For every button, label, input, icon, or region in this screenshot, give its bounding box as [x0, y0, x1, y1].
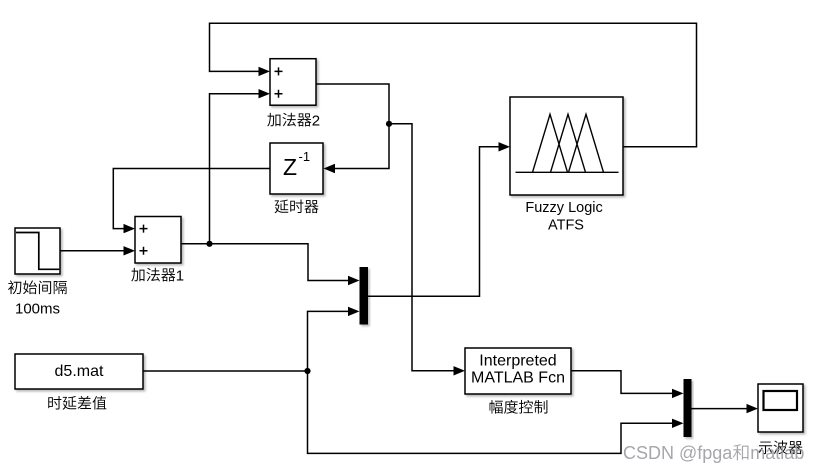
wire: branch d5.mat up to Mux1 input 2: [308, 311, 349, 371]
label 初始间隔: [8, 280, 67, 294]
wire: step source output to 加法器1 input 2: [60, 250, 125, 252]
step source block 初始间隔100ms: [15, 228, 60, 274]
svg-text:2: 2: [312, 112, 320, 129]
wire: branch 加法器1 output up to 加法器2 input 2: [210, 94, 260, 244]
unit delay block 延时器 (mirrored): [270, 143, 323, 194]
arrowhead into Mux2 input 2: [672, 419, 684, 428]
label 延时器: [275, 200, 319, 214]
arrowhead into Fuzzy Logic input: [499, 142, 511, 151]
wire: branch d5.mat along bottom to Mux2 input 2: [308, 371, 673, 453]
scope block 示波器: [758, 384, 803, 432]
sum block 加法器1: [135, 217, 181, 264]
label 示波器: [759, 440, 803, 454]
wire: Fuzzy Logic output feedback to 加法器2 input 1 (top loop): [210, 23, 697, 147]
watermark CSDN @fpga和matlab: [623, 443, 804, 463]
arrowhead into 示波器 scope input: [747, 404, 759, 413]
arrowhead into 加法器2 input 1: [259, 67, 271, 76]
wire: branch 加法器2 output to Interpreted MATLAB Fcn input: [389, 124, 454, 371]
svg-text:matlab: matlab: [750, 443, 804, 463]
mux block Mux1: [360, 267, 369, 325]
label Fuzzy Logic: [525, 200, 602, 216]
junction dot on d5.mat output: [304, 368, 310, 374]
arrowhead into Interpreted MATLAB Fcn input: [454, 366, 466, 375]
svg-text:CSDN @fpga: CSDN @fpga: [623, 443, 733, 463]
label 加法器2: [267, 112, 320, 129]
sum block 加法器2: [270, 59, 316, 105]
svg-text:-1: -1: [299, 149, 311, 164]
arrowhead into Mux1 input 1: [348, 276, 360, 285]
arrowhead into Mux1 input 2: [348, 307, 360, 316]
label ATFS: [548, 218, 584, 234]
svg-text:d5.mat: d5.mat: [55, 363, 104, 380]
wire: 加法器2 output down to 延时器 input: [316, 84, 389, 169]
label 幅度控制: [490, 400, 548, 414]
arrowhead into 加法器2 input 2: [259, 89, 271, 98]
label 加法器1: [131, 267, 184, 284]
junction dot on 加法器1 output: [206, 241, 212, 247]
mux block Mux2: [684, 379, 692, 437]
wire: Mux2 output to 示波器 scope input: [692, 408, 748, 410]
arrowhead into 延时器 input (points left): [324, 164, 336, 173]
wire: 延时器 output around to 加法器1 input 1: [113, 169, 270, 229]
svg-text:ATFS: ATFS: [548, 218, 584, 234]
svg-text:Z: Z: [283, 154, 297, 180]
fuzzy logic controller block Fuzzy Logic ATFS: [510, 97, 623, 195]
wire: Interpreted MATLAB Fcn output to Mux2 input 1: [571, 371, 673, 394]
svg-text:100ms: 100ms: [15, 300, 60, 317]
interpreted matlab function block: [465, 348, 571, 394]
label 时延差值: [48, 396, 106, 410]
wire: 加法器1 output to Mux1 input 1: [181, 244, 349, 281]
junction dot on 加法器2 output branch: [386, 121, 392, 127]
arrowhead into Mux2 input 1: [672, 389, 684, 398]
from-file block d5.mat: [15, 354, 143, 389]
arrowhead into 加法器1 input 1: [124, 224, 136, 233]
wire: Mux1 output up to Fuzzy Logic input: [368, 147, 499, 296]
svg-text:MATLAB Fcn: MATLAB Fcn: [471, 370, 565, 387]
arrowhead into 加法器1 input 2: [124, 246, 136, 255]
svg-text:Fuzzy Logic: Fuzzy Logic: [525, 200, 602, 216]
svg-text:Interpreted: Interpreted: [479, 353, 556, 370]
svg-text:1: 1: [176, 267, 184, 284]
wire: d5.mat output: [143, 370, 308, 372]
label 100ms: [15, 300, 60, 317]
